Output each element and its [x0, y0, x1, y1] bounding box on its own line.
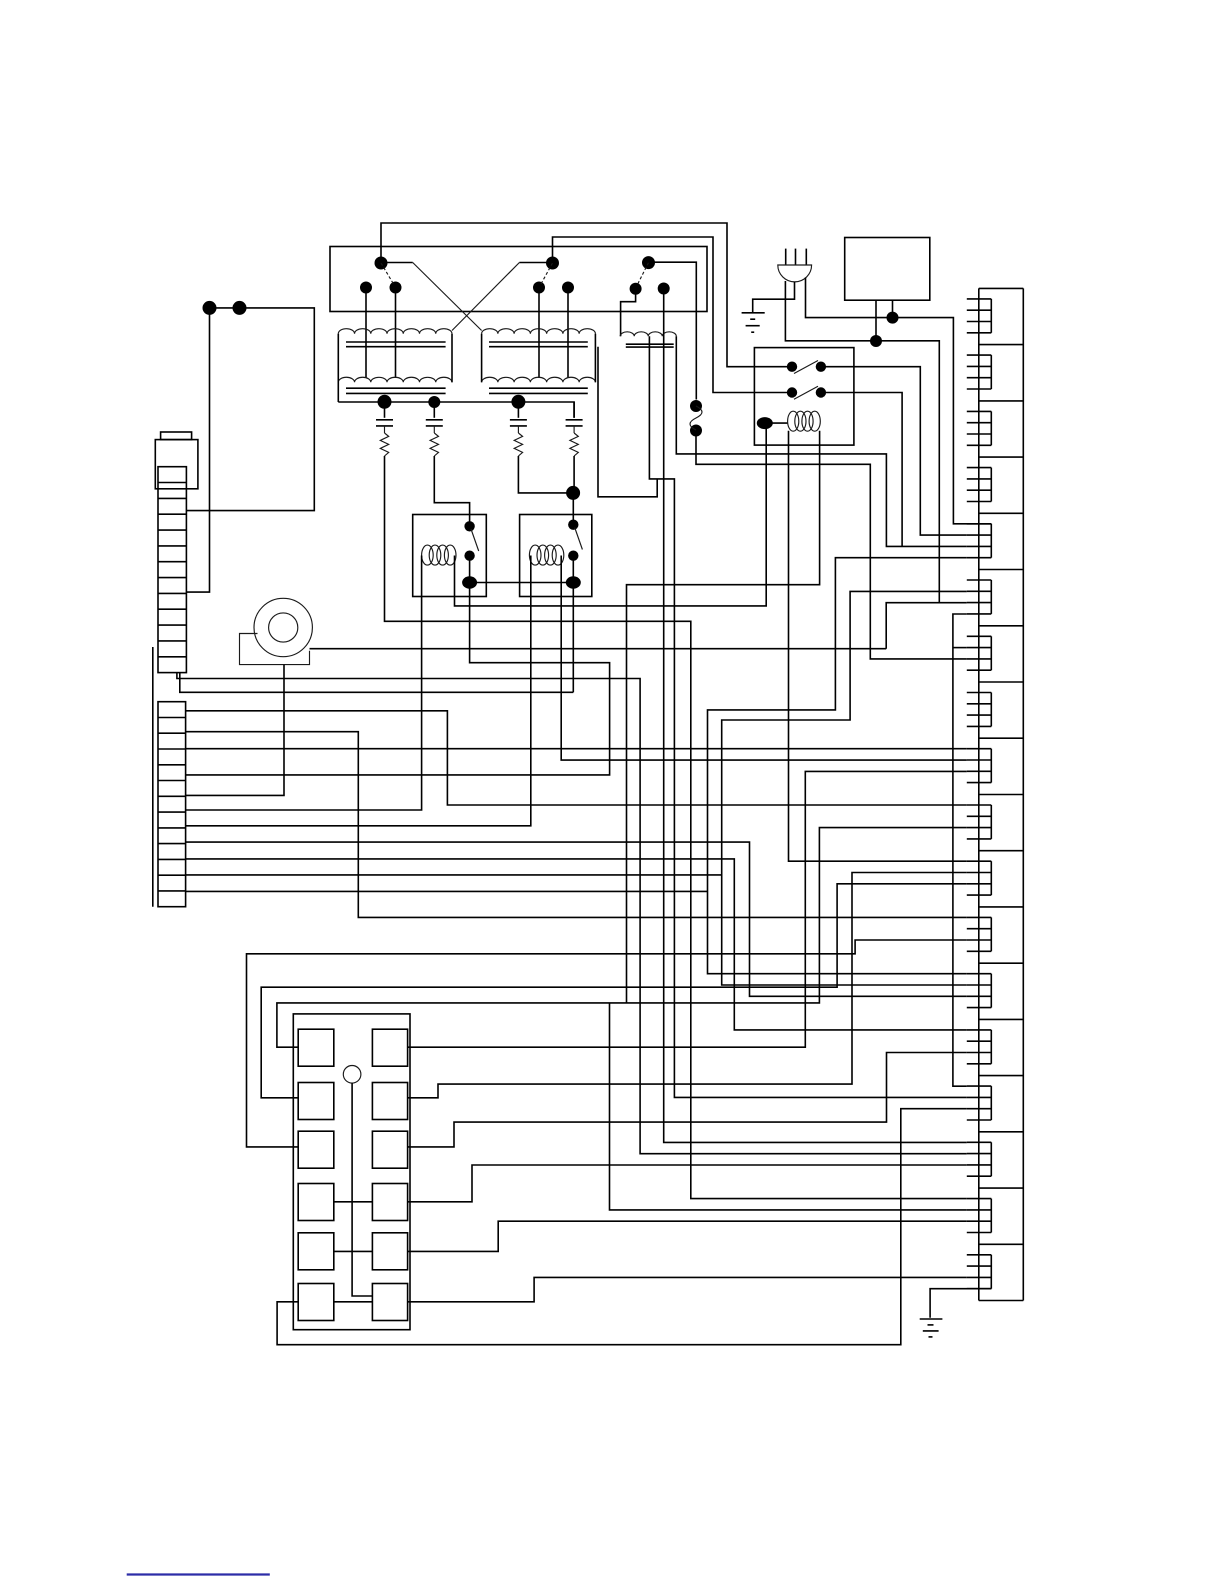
node: K1 pin2 junction — [887, 312, 899, 324]
transformer T2 primary winding — [482, 329, 596, 334]
connector J12 comb — [967, 917, 992, 951]
node: bus dot 2 — [428, 396, 440, 408]
node: RY2 pivot junction — [566, 486, 580, 500]
switch S1 — [360, 257, 482, 379]
wire: keypad row1 left to J10 pin3 — [277, 828, 967, 1048]
connector J3 comb — [967, 411, 992, 445]
relay RY2 coil — [529, 545, 541, 565]
transformer T1 secondary winding — [338, 377, 452, 382]
connector column outer right edge — [1022, 288, 1024, 1300]
connector column left edge — [978, 288, 980, 1300]
connector J16 comb — [967, 1142, 992, 1176]
connector block boundary 15 — [979, 1131, 1024, 1133]
wire: thermostat loop right side — [186, 308, 314, 511]
wire: P2 cell1 to J10 pin1 line — [186, 711, 967, 805]
wire: K1 pin2 — [892, 300, 894, 317]
wire: RY3 row2 to connector J5 pin3 line — [821, 393, 902, 547]
node: bus dot 3 — [511, 395, 525, 409]
wire: blower lead to strip P2 cell6 — [186, 665, 284, 796]
wire: fuse to connector J7 pin3 — [696, 431, 967, 659]
keypad left key row2 — [298, 1083, 334, 1120]
connector J1 comb — [967, 299, 992, 333]
keypad left key row5 — [298, 1233, 334, 1270]
relay RY1 contacts — [462, 521, 479, 589]
node: bus dot 1 — [378, 395, 392, 409]
wire: RY1 coil right to RY3 coil node — [455, 423, 788, 606]
relay RY2 contacts — [566, 520, 583, 589]
connector block boundary 6 — [979, 625, 1024, 627]
connector J10 comb — [967, 805, 992, 839]
connector P1 header box — [155, 440, 198, 489]
keypad right key row2 — [372, 1083, 407, 1120]
wire: chain2 to relay RY1 pivot — [434, 456, 469, 526]
wire: S2 pivot feed to relay RY3 row2 — [553, 237, 793, 393]
keypad left key row6 — [298, 1284, 334, 1321]
transformer T3 winding — [620, 332, 676, 336]
connector block boundary 14 — [979, 1075, 1024, 1077]
wire: keypad center line — [352, 1083, 372, 1296]
wire: RY1-RY2 common link — [470, 582, 574, 584]
relay RY3 coil — [788, 411, 799, 431]
keypad left key row1 — [298, 1029, 334, 1066]
wire: T2 core tail jog to T3 tap line — [598, 347, 657, 497]
wire: P2 cell2 to J12 pin1 — [186, 732, 967, 918]
wire: keypad row2 left to J11 pin3 — [261, 884, 967, 1098]
wire: RY3 coil left lead down to connector J11 pin1 — [789, 431, 967, 861]
wire: RY2 common down to strip bus2 — [572, 583, 574, 693]
capacitor/resistor chain 3 — [517, 402, 519, 418]
keypad right key row3 — [372, 1131, 407, 1168]
wire: J18 spine to ground — [930, 1289, 991, 1318]
connector block boundary 9 — [979, 794, 1024, 796]
wire: P2 cell12 tee to jogA — [186, 890, 708, 892]
connector block boundary 4 — [979, 512, 1024, 514]
wire: blower output to J6 pin3 riser — [310, 648, 887, 650]
connector block boundary 2 — [979, 400, 1024, 402]
keypad left key row3 — [298, 1131, 334, 1168]
connector J5 comb — [967, 524, 992, 558]
wire: keypad row5 link — [334, 1250, 373, 1252]
wire: keypad row6 link — [334, 1301, 373, 1303]
connector block boundary 17 — [979, 1243, 1024, 1245]
relay RY3 switch row1 — [787, 361, 826, 374]
secondary bus wire — [338, 402, 574, 418]
wire: plug middle prong to ground — [753, 282, 795, 313]
connector block boundary 3 — [979, 456, 1024, 458]
wire: RY1 common contact to strip P2 cell5 — [186, 583, 610, 775]
connector block boundary 7 — [979, 681, 1024, 683]
connector P1 top small box — [161, 432, 192, 440]
connector block boundary 5 — [979, 569, 1024, 571]
wire: T3 middle tap down to connector J15 pin2 — [649, 336, 966, 1097]
wire: chain3 to RY2 pivot node — [518, 456, 573, 493]
relay RY1 box — [413, 515, 487, 597]
wire: strip bus2 to RY2 common — [180, 673, 574, 693]
footer link line — [127, 1573, 270, 1575]
transformer T2 lower core — [489, 387, 588, 389]
connector J14 comb — [967, 1030, 992, 1064]
wire: P2 cell3 to J9 pin1 — [186, 748, 967, 750]
transformer T2 side leads — [481, 334, 483, 383]
connector block boundary 12 — [979, 962, 1024, 964]
wire: P2 cell10 to J14 pin1 — [186, 859, 967, 1030]
wire: keypad row5 to J17 pin3 — [408, 1221, 967, 1251]
switch S3 — [621, 256, 697, 399]
strip outer edge line — [152, 647, 154, 907]
connector J8 comb — [967, 693, 992, 727]
connector block boundary 13 — [979, 1018, 1024, 1020]
keypad left key row4 — [298, 1184, 334, 1221]
wire: J5 pin4 jog down to J13 pin1 — [708, 558, 967, 974]
transformer T2 right lead — [594, 334, 596, 383]
connector J9 comb — [967, 749, 992, 783]
wire: J6 pin2 jog down to J13 pin2 — [722, 591, 967, 985]
capacitor/resistor chain 4 — [573, 402, 575, 418]
keypad right key row5 — [372, 1233, 407, 1270]
wire: K1 pin1 — [875, 300, 877, 341]
wire: RY3 coil right lead tail — [627, 431, 820, 1003]
wire: RY2 coil left to strip P2 cell8 — [186, 556, 531, 826]
keypad indicator circle — [343, 1066, 361, 1084]
node: loop dot B — [233, 301, 247, 315]
wire: P2 cell11 tee to jogB — [186, 874, 722, 876]
transformer T2 secondary winding — [482, 377, 596, 382]
connector block boundary 11 — [979, 906, 1024, 908]
wire: strip bus1 to connector J16 pin2 — [177, 673, 967, 1154]
connector J6 comb — [967, 580, 992, 614]
connector block boundary 10 — [979, 850, 1024, 852]
wire: keypad row3 left to J12 pin3 — [247, 940, 967, 1147]
wire: keypad row6 right to J18 pin3 — [408, 1277, 967, 1301]
wire: RY1 coil left to strip P2 cell7 — [186, 556, 422, 811]
switch S2 — [452, 257, 574, 379]
wire: plug left lead, junction with box K1 pin1, to connector J6 pin3 tee — [785, 281, 939, 603]
connector block boundary 0 — [979, 287, 1024, 289]
connector block boundary 18 — [979, 1300, 1024, 1302]
wire: S1 pivot feed to relay RY3 row1 — [381, 223, 792, 367]
box K1 (noise filter) — [845, 238, 930, 301]
wire: T3 right end to connector J5 pin3 — [676, 336, 967, 546]
connector J15 comb — [967, 1086, 992, 1120]
wire: thermostat loop left side — [186, 308, 209, 592]
wire: riser tee to connector J17 pin2 — [610, 1003, 967, 1210]
AC plug P1 — [778, 249, 812, 282]
connector strip P2 — [158, 702, 186, 907]
keypad right key row4 — [372, 1184, 407, 1221]
connector block boundary 8 — [979, 737, 1024, 739]
node: K1 pin1 junction — [870, 335, 882, 347]
wire: keypad row3 right to J14 pin3 — [408, 1053, 967, 1147]
wire: keypad row4 link — [334, 1201, 373, 1203]
wire: keypad row2 right to J11 pin2 — [408, 873, 967, 1098]
connector block boundary 16 — [979, 1187, 1024, 1189]
keypad right key row1 — [372, 1029, 407, 1066]
capacitor/resistor chain 1 — [384, 402, 386, 418]
transformer T1 primary winding — [338, 329, 452, 334]
transformer T1 core — [346, 341, 446, 343]
wire: RY3 row1 to connector J5 pin2 — [821, 367, 967, 535]
relay RY2 box — [520, 515, 592, 597]
transformer T1 side leads — [337, 334, 339, 402]
transformer T3 core — [626, 343, 674, 345]
fuse F1 — [690, 400, 702, 437]
selector switch box — [330, 247, 707, 312]
wire: RY2 coil right to connector J9 pin2 — [561, 556, 967, 761]
connector J4 comb — [967, 468, 992, 502]
connector J18 comb — [967, 1255, 992, 1289]
relay RY3 switch row2 — [787, 386, 826, 399]
node: loop dot A — [203, 301, 217, 315]
relay RY1 coil — [422, 545, 434, 565]
wire: keypad row4 to J16 pin3 — [408, 1165, 967, 1202]
transformer T1 lower core — [346, 387, 446, 389]
connector block boundary 1 — [979, 344, 1024, 346]
wire: J6 pin4 down to J15 pin1 — [953, 614, 967, 1086]
wire: J6 pin3 from blower riser — [886, 603, 967, 649]
transformer T2 core — [489, 341, 588, 343]
connector J13 comb — [967, 974, 992, 1008]
wire: junction down to RY2 pivot — [572, 493, 574, 525]
wire: chain4 to RY2 pivot node — [573, 456, 575, 493]
wire: chain1 to connector J17 pin1 — [385, 456, 967, 1199]
connector J11 comb — [967, 861, 992, 895]
connector strip P1 — [158, 467, 186, 673]
node: RY3 coil left junction — [757, 417, 773, 429]
ground GND2 — [920, 1319, 943, 1337]
keypad right key row6 — [372, 1284, 407, 1321]
relay RY3 box — [754, 348, 854, 446]
wire: keypad row1 right to J9 pin3 — [408, 771, 967, 1047]
wire: P2 cell9 to J13 pin3 — [186, 842, 967, 996]
capacitor/resistor chain 2 — [433, 402, 435, 418]
blower motor B1 — [240, 598, 313, 664]
connector J17 comb — [967, 1199, 992, 1233]
wire: plug right lead, junction with box K1 pin2, to connector J5 pin1 — [806, 278, 992, 524]
wire: keypad row6 left bottom to J15 pin3 — [277, 1109, 967, 1345]
ground GND1 — [742, 313, 765, 332]
keypad/connector block M1 outer — [293, 1014, 410, 1330]
connector J7 comb — [967, 636, 992, 670]
wire: J7 pin2 stub — [953, 647, 967, 649]
connector J2 comb — [967, 355, 992, 389]
wire: S3 right contact through T3 down to connector J16 pin1 — [664, 289, 967, 1143]
